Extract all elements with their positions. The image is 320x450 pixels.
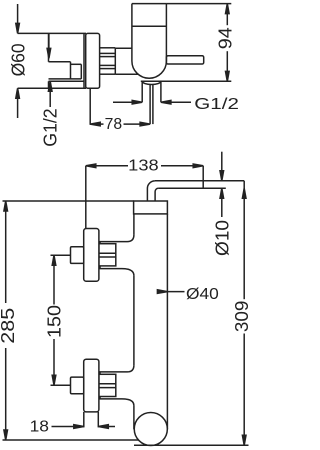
svg-text:138: 138 xyxy=(128,158,159,175)
svg-text:309: 309 xyxy=(231,301,252,333)
svg-text:18: 18 xyxy=(30,418,50,435)
svg-text:78: 78 xyxy=(105,116,123,133)
svg-text:G1/2: G1/2 xyxy=(194,96,239,113)
svg-text:Ø10: Ø10 xyxy=(212,220,233,256)
svg-text:285: 285 xyxy=(0,308,18,344)
svg-text:94: 94 xyxy=(215,27,236,49)
svg-text:Ø60: Ø60 xyxy=(8,43,29,76)
svg-text:150: 150 xyxy=(44,305,65,338)
svg-text:Ø40: Ø40 xyxy=(186,286,219,303)
svg-text:G1/2: G1/2 xyxy=(39,108,60,146)
